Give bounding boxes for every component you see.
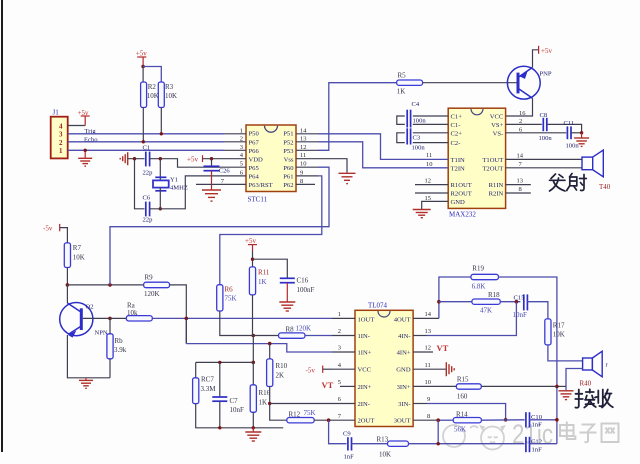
resistor R16 [250, 385, 270, 413]
wire R11 net down to bias rail [252, 336, 254, 363]
wire R6 bottom to 1IN- net [220, 311, 254, 336]
wire VS- to C11 [506, 132, 567, 134]
wire Vss to ground [318, 159, 347, 173]
wire +5v to R2 top [142, 67, 144, 83]
wire C26 to ground [211, 171, 213, 190]
svg-text:10: 10 [425, 379, 432, 386]
svg-text:4IN+: 4IN+ [397, 350, 411, 357]
junction R3/Trig [160, 132, 163, 135]
svg-text:VDD: VDD [249, 156, 264, 163]
wire R10 bottom to R12 [270, 387, 287, 421]
junction +5v/R2/R3 [141, 65, 145, 69]
svg-text:VS-: VS- [493, 130, 504, 137]
capacitor C11 [564, 120, 580, 150]
capacitor C12 [526, 437, 542, 454]
wire junction to ground [581, 133, 583, 138]
svg-text:1nF: 1nF [532, 447, 543, 454]
wire Trig: J1 pin3 to P50 [68, 133, 224, 135]
wire 1IN+ net [186, 344, 332, 352]
crystal Y1 4MHZ [153, 176, 188, 191]
svg-text:R6: R6 [225, 286, 234, 294]
svg-text:10nF: 10nF [513, 311, 528, 319]
svg-text:C1+: C1+ [451, 114, 463, 121]
svg-text:-5v: -5v [306, 366, 316, 374]
capacitor C9 [343, 431, 354, 461]
wire R18 to C15 [500, 301, 520, 303]
junction R16 bottom [252, 426, 255, 429]
svg-text:75K: 75K [225, 295, 237, 303]
capacitor C3 [405, 128, 426, 151]
svg-text:100n: 100n [412, 145, 426, 152]
wire bias rail top [196, 361, 254, 363]
wire PNP collector to VCC pin16 [506, 98, 533, 116]
node VT at 4IN+ [437, 343, 449, 353]
wire C7 stem bottom [219, 401, 221, 428]
wire C8 to corner [547, 124, 582, 132]
svg-text:R8: R8 [286, 326, 295, 334]
svg-text:P61: P61 [283, 174, 293, 181]
svg-text:R19: R19 [472, 265, 484, 273]
transistor Q PNP [507, 66, 552, 99]
svg-text:GND: GND [396, 367, 411, 374]
svg-text:R12: R12 [289, 411, 301, 419]
svg-text:MAX232: MAX232 [449, 211, 476, 219]
wire R5 to PNP base [423, 82, 517, 84]
svg-text:5: 5 [338, 379, 341, 386]
wire P51 to T1IN [318, 134, 448, 160]
resistor R11 [249, 267, 270, 295]
capacitor C1 [143, 144, 154, 176]
svg-text:13: 13 [300, 135, 307, 142]
wire RC7 stem bottom [196, 404, 284, 428]
node Echo label [84, 136, 98, 143]
svg-text:P52: P52 [283, 139, 293, 146]
wire P53 to R5 [318, 83, 397, 151]
svg-text:1K: 1K [259, 398, 268, 406]
ground below Q2 emitter [79, 378, 93, 389]
svg-text:P64: P64 [249, 174, 260, 181]
wire C12 to long vertical [530, 443, 557, 445]
wire 4OUT feedback vertical [439, 277, 471, 318]
svg-text:C2+: C2+ [451, 130, 463, 137]
IC U3 TL074 [355, 301, 413, 426]
svg-text:2IN-: 2IN- [358, 401, 370, 408]
svg-text:4IN-: 4IN- [398, 333, 410, 340]
svg-text:Vss: Vss [284, 156, 294, 163]
svg-text:T40: T40 [599, 183, 611, 191]
wire 3IN+ R15 [456, 375, 481, 400]
wire R9 right to Ra net [170, 285, 187, 344]
ground below C16 [279, 302, 295, 311]
IC U1 STC11 [246, 125, 296, 204]
TL074 left pin stubs [332, 318, 355, 420]
wire R7 bottom [66, 268, 68, 285]
wire +5v to R3 top [143, 67, 161, 83]
pin number 11 T1IN [426, 152, 432, 159]
svg-text:C6: C6 [143, 195, 151, 202]
svg-text:+5v: +5v [78, 109, 89, 117]
svg-text:8: 8 [427, 413, 430, 420]
svg-text:10: 10 [426, 161, 433, 168]
svg-text:1K: 1K [397, 88, 406, 96]
svg-text:120K: 120K [144, 290, 160, 298]
svg-text:10K: 10K [73, 254, 85, 262]
wire crystal stub bottom [159, 188, 161, 209]
junction R10 top [268, 342, 272, 346]
svg-text:1OUT: 1OUT [358, 316, 375, 323]
wire VS+ to C8 [506, 123, 542, 125]
svg-text:PNP: PNP [540, 71, 552, 78]
svg-text:47K: 47K [480, 307, 492, 315]
svg-text:R11: R11 [258, 269, 270, 277]
resistor R14 [453, 410, 481, 433]
svg-text:3.3M: 3.3M [201, 385, 217, 393]
junction long vertical / R15 [555, 385, 559, 389]
wire +5v branch to C16 [253, 259, 288, 278]
wire to R8 [253, 335, 278, 337]
resistor RC7 [193, 376, 217, 404]
wire GND pin to ground [422, 201, 449, 209]
capacitor C4 loop wires [397, 116, 448, 124]
capacitor C7 [212, 397, 244, 414]
wire P52 to T2IN [318, 142, 448, 168]
svg-text:R1OUT: R1OUT [451, 182, 472, 189]
svg-text:Y1: Y1 [170, 176, 178, 183]
wire 4IN- to junction [427, 302, 516, 336]
wire base node to Ra [110, 317, 126, 319]
pin number 14 T1OUT [517, 152, 524, 159]
svg-text:2: 2 [59, 139, 63, 147]
svg-text:5: 5 [240, 161, 243, 168]
ground below J1 [78, 158, 92, 166]
wire C7 stem top [219, 362, 221, 396]
svg-text:C7: C7 [230, 397, 239, 405]
svg-text:C8: C8 [540, 112, 548, 119]
svg-text:1K: 1K [258, 278, 267, 286]
wire R13 branch vertical [437, 420, 439, 444]
pin stub R1IN 13 [506, 178, 531, 185]
svg-text:R17: R17 [553, 321, 565, 329]
svg-text:1: 1 [59, 147, 63, 155]
watermark chinese wang [602, 424, 619, 443]
svg-text:10nF: 10nF [230, 406, 245, 414]
svg-text:22p: 22p [143, 169, 154, 176]
wire Rb top [109, 318, 111, 333]
speaker T40 [582, 150, 611, 191]
svg-text:16: 16 [519, 110, 526, 117]
wire R18 branch [439, 301, 472, 303]
STC11 right pin numbers [300, 127, 307, 185]
wire left leg to C6 [135, 159, 145, 209]
svg-text:NPN: NPN [95, 330, 108, 337]
svg-text:4: 4 [59, 123, 63, 131]
wire R15 to long vertical [481, 385, 557, 387]
wire R10 stem top [269, 344, 271, 359]
svg-text:P66: P66 [249, 148, 260, 155]
resistor R9 [144, 274, 170, 299]
connector J1 [51, 109, 68, 159]
svg-text:P60: P60 [283, 165, 294, 172]
svg-text:T2IN: T2IN [451, 165, 466, 172]
svg-text:TL074: TL074 [368, 301, 388, 309]
power -5v at R7 [43, 224, 67, 243]
svg-text:11: 11 [300, 152, 306, 159]
watermark 21ic logo [443, 425, 506, 450]
svg-text:75K: 75K [304, 409, 316, 417]
svg-text:Rb: Rb [115, 337, 124, 345]
wire R14 to C10 [481, 419, 524, 421]
wire J1 pin4 to +5v [68, 125, 86, 127]
svg-text:C1-: C1- [451, 122, 461, 129]
svg-text:1nF: 1nF [344, 454, 355, 461]
junction crystal bottom [159, 207, 162, 210]
wire Q2 collector [66, 285, 68, 303]
wire 3IN- branch [427, 404, 506, 420]
node Trig label [85, 128, 97, 135]
wire speaker R40 to ground [566, 369, 583, 391]
label transmit chinese [550, 174, 587, 192]
resistor R10 [267, 359, 288, 387]
junction R2/Echo [142, 140, 145, 143]
wire RC7 stem top [195, 362, 197, 377]
svg-text:10: 10 [300, 161, 307, 168]
svg-text:100n: 100n [413, 118, 427, 125]
svg-text:3.9k: 3.9k [114, 346, 127, 354]
wire C15 to R17 [527, 302, 548, 319]
svg-text:160: 160 [457, 392, 468, 400]
svg-text:2K: 2K [276, 372, 285, 380]
pin number 10 T2IN [426, 161, 433, 168]
wire R2 bottom to Echo [142, 108, 144, 142]
junction VDD/C26 [210, 157, 213, 160]
power +5v at PNP [539, 46, 553, 55]
svg-text:C12: C12 [531, 439, 542, 446]
IC U2 MAX232 [448, 108, 505, 218]
svg-text:12: 12 [425, 177, 432, 184]
ground below C26 [202, 190, 221, 201]
svg-text:12: 12 [300, 144, 307, 151]
resistor R13 [377, 435, 409, 458]
wire R8 to 1IN- [305, 335, 332, 337]
pin stub R1OUT 12 [415, 177, 448, 184]
svg-text:R10: R10 [276, 362, 288, 370]
TL074 right pin stubs [413, 318, 456, 420]
wire R7 node to R9 [67, 284, 143, 286]
svg-text:3OUT: 3OUT [394, 417, 411, 424]
svg-text:10K: 10K [553, 330, 565, 338]
wire Ra to TL074 1OUT [153, 317, 333, 319]
svg-text:RC7: RC7 [201, 376, 214, 384]
capacitor C26 [204, 166, 231, 174]
watermark 21ic text [512, 419, 553, 450]
svg-text:R2IN: R2IN [489, 191, 504, 198]
svg-text:C2-: C2- [451, 140, 461, 147]
TL074 right pin numbers [425, 311, 432, 420]
svg-text:1: 1 [338, 311, 341, 318]
wire ground tap at J1 pin1 [84, 150, 86, 158]
svg-text:C11: C11 [564, 120, 575, 127]
wire R9 branch to 1IN+ net [185, 318, 187, 343]
wire C11 to ground junction [571, 132, 582, 134]
svg-text:14: 14 [300, 127, 307, 134]
svg-text:R13: R13 [377, 435, 389, 443]
junction R11/R8 net [252, 334, 256, 338]
svg-text:100n: 100n [539, 135, 553, 142]
svg-text:100n: 100n [566, 143, 580, 150]
junction R7/R9/Q2 [66, 283, 70, 287]
wire C10 to long vertical [530, 419, 557, 421]
TL074 left pin numbers [338, 311, 342, 420]
svg-text:13: 13 [425, 328, 432, 335]
resistor R17 [545, 319, 565, 345]
capacitor C10 [526, 412, 543, 428]
svg-text:14: 14 [517, 152, 524, 159]
power -5v at TL074 VCC [306, 366, 333, 375]
pin number 2 VS+ [519, 118, 522, 125]
svg-text:9: 9 [300, 169, 303, 176]
svg-text:22p: 22p [143, 217, 154, 224]
svg-text:3: 3 [338, 345, 341, 352]
svg-text:6.8K: 6.8K [472, 283, 486, 291]
capacitor C4 [405, 101, 427, 128]
svg-text:2IN+: 2IN+ [358, 384, 372, 391]
watermark chinese zi [580, 425, 597, 443]
capacitor C3 loop wires [397, 133, 448, 143]
wire T1OUT to speaker [506, 158, 582, 160]
junction Ra net / R9 branch [185, 317, 189, 321]
svg-text:R9: R9 [145, 274, 154, 282]
wire crystal stub top [159, 159, 161, 181]
ground below bias rail [245, 428, 261, 441]
wire P61 to R6 top [220, 176, 322, 285]
svg-text:1IN+: 1IN+ [358, 350, 372, 357]
power +5v at J1 [78, 109, 90, 126]
junction base/Rb/Ra [108, 317, 112, 321]
wire crystal top net [128, 158, 145, 160]
junction C7 top [218, 361, 221, 364]
ground sideways at TL074 GND pin11 [446, 362, 454, 376]
wire 2IN- [270, 403, 332, 405]
svg-text:1nF: 1nF [532, 421, 543, 428]
svg-text:10k: 10k [127, 309, 138, 317]
junction C9 branch [327, 418, 331, 422]
svg-text:1: 1 [240, 127, 243, 134]
wire C1 to P65 step [150, 159, 224, 168]
junction J1 pin1/ground [84, 149, 87, 152]
pin number 7 T2OUT [519, 161, 523, 168]
svg-text:R1IN: R1IN [489, 182, 504, 189]
svg-text:VS+: VS+ [491, 122, 503, 129]
capacitor C15 [513, 294, 528, 319]
svg-text:P50: P50 [249, 131, 260, 138]
svg-text:+5v: +5v [136, 50, 147, 58]
junction bias rail top [252, 361, 256, 365]
resistor R18 [472, 291, 500, 315]
svg-text:R7: R7 [73, 244, 82, 252]
wire 3OUT to R14 [438, 419, 453, 421]
wire R16 stem bottom [252, 412, 254, 428]
capacitor C6 [143, 195, 154, 224]
svg-text:Q2: Q2 [86, 304, 94, 311]
resistor R5 [397, 72, 423, 96]
svg-text:P65: P65 [249, 165, 260, 172]
svg-text:+5v: +5v [187, 155, 198, 163]
svg-text:11: 11 [425, 362, 431, 369]
power +5v above R2 R3 [136, 50, 147, 67]
svg-text:C4: C4 [412, 101, 420, 108]
svg-text:P62: P62 [283, 182, 293, 189]
svg-text:VCC: VCC [490, 114, 504, 121]
svg-text:STC11: STC11 [248, 196, 268, 204]
transistor Q2 NPN [60, 303, 108, 338]
svg-text:4OUT: 4OUT [394, 316, 411, 323]
svg-text:C16: C16 [297, 277, 309, 285]
svg-text:13: 13 [517, 178, 524, 185]
pin stub R2OUT 15 [415, 193, 448, 202]
junction C7 bottom [218, 426, 221, 429]
wire VDD to C26 [211, 159, 213, 167]
svg-text:C15: C15 [514, 295, 526, 302]
resistor R7 [64, 243, 85, 268]
svg-text:T1IN: T1IN [451, 157, 466, 164]
wire R19 right to long vertical [499, 277, 557, 444]
svg-text:GND: GND [451, 199, 466, 206]
label receive chinese [575, 389, 613, 407]
wire R11 bottom to 1IN- junction [252, 295, 254, 336]
resistor R3 [158, 82, 177, 108]
svg-text:R18: R18 [488, 291, 500, 299]
wire Rb bottom [109, 359, 111, 378]
junction crystal top [159, 157, 162, 160]
wire T2OUT to speaker [506, 167, 582, 169]
svg-text:R14: R14 [456, 410, 468, 418]
svg-text:P53: P53 [283, 148, 294, 155]
power +5v at VDD [187, 155, 224, 163]
ground below MAX232 GND [413, 210, 431, 218]
svg-text:2OUT: 2OUT [358, 417, 375, 424]
resistor R8 [279, 325, 312, 339]
STC11 right pin stubs [296, 134, 318, 185]
svg-text:8: 8 [300, 178, 303, 185]
svg-text:R5: R5 [398, 72, 407, 80]
svg-text:C3: C3 [413, 135, 421, 142]
svg-text:12: 12 [425, 345, 432, 352]
power +5v at R11 [245, 237, 257, 267]
speaker R40 [580, 351, 609, 387]
junction +5v/C16 branch [251, 258, 254, 261]
svg-text:C1: C1 [143, 144, 151, 151]
wire Q2 base to Rb/Ra [83, 317, 110, 319]
svg-text:P67: P67 [249, 139, 260, 146]
svg-text:11: 11 [426, 152, 432, 159]
svg-text:R3: R3 [165, 83, 174, 91]
watermark chinese dian [560, 422, 575, 440]
wire R16 stem top [252, 362, 254, 384]
ground below R40 [559, 391, 574, 400]
svg-text:56K: 56K [454, 426, 466, 434]
resistor Rb [107, 334, 127, 359]
junction P60 net at base node [108, 283, 112, 287]
wire R3 bottom to Trig [160, 108, 162, 134]
wire P60 long net [110, 167, 329, 285]
capacitor C16 [280, 277, 315, 295]
STC11 left pin stubs [196, 134, 246, 185]
wire J1 pin1 to P66 [68, 149, 224, 151]
junction R14/C10 net [504, 418, 508, 422]
junction R13 net / 3OUT branch [437, 442, 440, 445]
ground sideways left of C1 [120, 152, 128, 165]
junction 2IN- branch [268, 402, 271, 405]
